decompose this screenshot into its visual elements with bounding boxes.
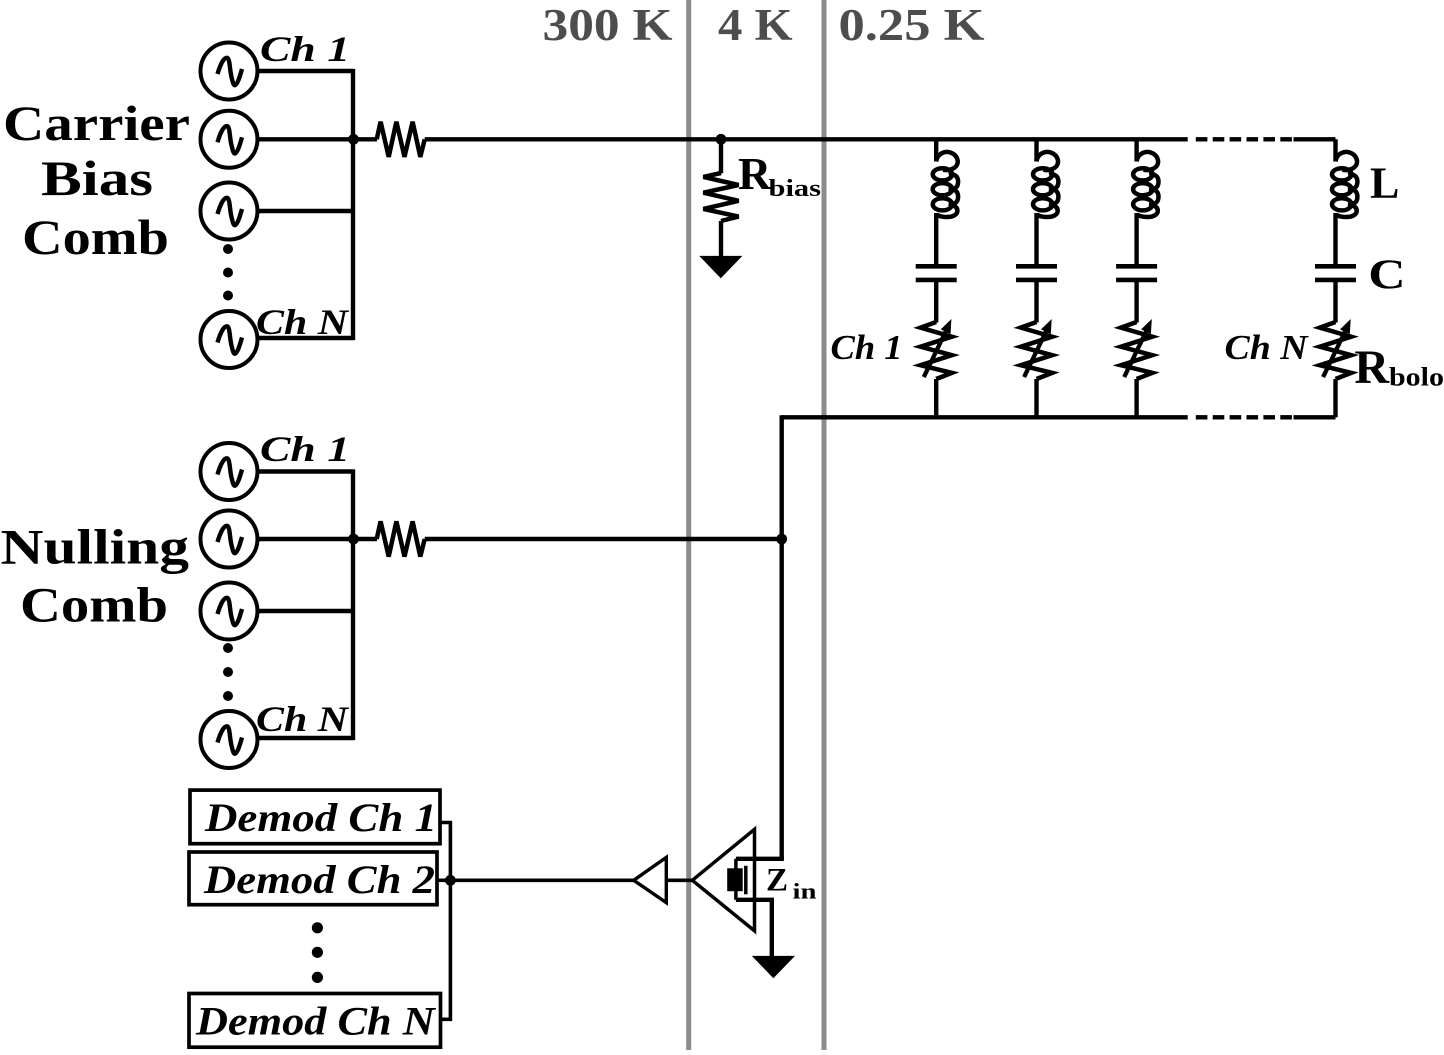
wire demod Ch2 stub: [437, 878, 450, 882]
wire nulling Ch2 to bus: [257, 537, 353, 541]
svg-text:bias: bias: [769, 176, 822, 202]
node nulling bus junction: [348, 534, 359, 545]
svg-text:R: R: [738, 148, 772, 199]
svg-text:Bias: Bias: [41, 150, 153, 206]
AC source nulling V1 (Ch): [201, 443, 258, 500]
AC source nulling V2 (Ch): [201, 511, 258, 568]
node R_bias junction: [716, 134, 727, 145]
svg-text:Carrier: Carrier: [3, 95, 190, 151]
svg-text:Demod Ch N: Demod Ch N: [195, 998, 437, 1043]
wire nulling resistor to summing node: [425, 537, 782, 541]
wire bottom right corner segment: [1294, 415, 1336, 419]
ellipsis dots carrier comb: [223, 244, 233, 301]
label Carrier Bias Comb: [3, 95, 190, 265]
wire carrier ChN to bus: [257, 336, 353, 340]
svg-text:Demod Ch 1: Demod Ch 1: [204, 795, 437, 840]
capacitor C branch 3: [1116, 266, 1157, 322]
capacitor C branch 1: [916, 266, 957, 322]
svg-text:in: in: [793, 879, 817, 904]
AC source carrier V1 (Ch): [201, 43, 258, 100]
label Nulling Comb: [1, 519, 189, 633]
wire carrier Ch2 to bus: [257, 137, 353, 141]
wire R_bias bottom lead: [719, 221, 723, 256]
node demod junction: [445, 875, 456, 886]
wire summing node into transistor gate (bend): [736, 857, 782, 859]
op-amp buffer (300K amplifier, points left): [634, 857, 667, 902]
wire transistor source to ground: [736, 900, 772, 956]
label R_bias: [738, 148, 821, 202]
inductor L branch 3: [1133, 139, 1158, 264]
wire carrier Ch3 to bus: [257, 209, 353, 213]
svg-text:Demod Ch 2: Demod Ch 2: [203, 857, 435, 902]
label R_bolo: [1354, 341, 1444, 394]
transistor Z_in (input element): [727, 859, 746, 900]
AC source nulling V3 (Ch): [201, 583, 258, 640]
resistor R_bolo branch N (variable): [1320, 319, 1351, 417]
svg-text:300 K: 300 K: [543, 0, 673, 50]
ground below transistor: [752, 956, 795, 978]
svg-text:Ch 1: Ch 1: [831, 328, 903, 367]
wire R_bias top lead: [719, 139, 723, 173]
wire carrier comb bus: [351, 69, 355, 340]
4K/0.25K temperature boundary line: [822, 0, 827, 1050]
resistor carrier series: [377, 122, 425, 157]
svg-text:bolo: bolo: [1389, 363, 1444, 392]
resistor R_bias: [703, 173, 738, 221]
wire carrier resistor to bolometer array: [425, 137, 1188, 141]
svg-text:Comb: Comb: [22, 209, 169, 265]
inductor L branch N: [1332, 139, 1357, 264]
svg-text:Z: Z: [766, 863, 788, 899]
resistor R_bolo branch 2 (variable): [1021, 319, 1052, 417]
resistor nulling series: [377, 521, 425, 556]
wire demod junction to amplifier: [450, 878, 633, 882]
resistor R_bolo branch 1 (variable): [921, 319, 952, 417]
label Z_in: [766, 863, 817, 904]
block Demod Ch N: [189, 994, 441, 1048]
wire nulling Ch3 to bus: [257, 609, 353, 613]
AC source carrier VN (Ch): [201, 311, 258, 368]
wire demod Ch1 stub: [440, 823, 450, 1020]
wire buffer to SQUID amplifier: [666, 878, 692, 882]
AC source carrier V3 (Ch): [201, 183, 258, 240]
wire nulling Ch1 to bus: [257, 469, 353, 473]
inductor L branch 1: [933, 139, 958, 264]
capacitor C branch 2: [1016, 266, 1057, 322]
node carrier bus junction: [348, 134, 359, 145]
wire bottom dashed continuation: [1196, 415, 1292, 419]
svg-text:Ch N: Ch N: [256, 699, 350, 739]
wire top right corner segment: [1294, 137, 1336, 141]
wire bus to carrier resistor: [353, 137, 377, 141]
node summing junction: [776, 534, 787, 545]
ellipsis dots demod: [312, 922, 323, 983]
block Demod Ch 2: [189, 852, 437, 905]
svg-text:C: C: [1368, 252, 1405, 298]
ground below R_bias: [699, 256, 742, 278]
inductor L branch 2: [1033, 139, 1058, 264]
ellipsis dots nulling comb: [223, 643, 233, 701]
svg-text:L: L: [1370, 159, 1399, 208]
svg-text:Nulling: Nulling: [1, 519, 189, 575]
AC source nulling VN (Ch): [201, 711, 258, 768]
wire bolometer array bottom: [782, 415, 1188, 419]
svg-text:Ch 1: Ch 1: [260, 29, 350, 69]
wire nulling comb bus: [351, 469, 355, 740]
svg-text:R: R: [1354, 341, 1390, 394]
wire top dashed continuation: [1196, 137, 1292, 141]
svg-text:4 K: 4 K: [718, 0, 793, 50]
svg-text:Ch N: Ch N: [1225, 328, 1310, 367]
wire summing node vertical (array return to SQUID): [780, 415, 784, 859]
op-amp SQUID amplifier (4K, points left): [692, 829, 754, 931]
svg-text:Comb: Comb: [20, 577, 168, 633]
svg-text:0.25 K: 0.25 K: [839, 0, 985, 50]
AC source carrier V2 (Ch): [201, 111, 258, 168]
wire bus to nulling resistor: [353, 537, 377, 541]
block Demod Ch 1: [190, 790, 440, 844]
resistor R_bolo branch 3 (variable): [1121, 319, 1152, 417]
capacitor C branch N: [1315, 266, 1356, 322]
wire nulling ChN to bus: [257, 736, 353, 740]
wire carrier Ch1 to bus: [257, 69, 353, 73]
svg-text:Ch 1: Ch 1: [260, 429, 350, 469]
300K/4K temperature boundary line: [686, 0, 691, 1050]
